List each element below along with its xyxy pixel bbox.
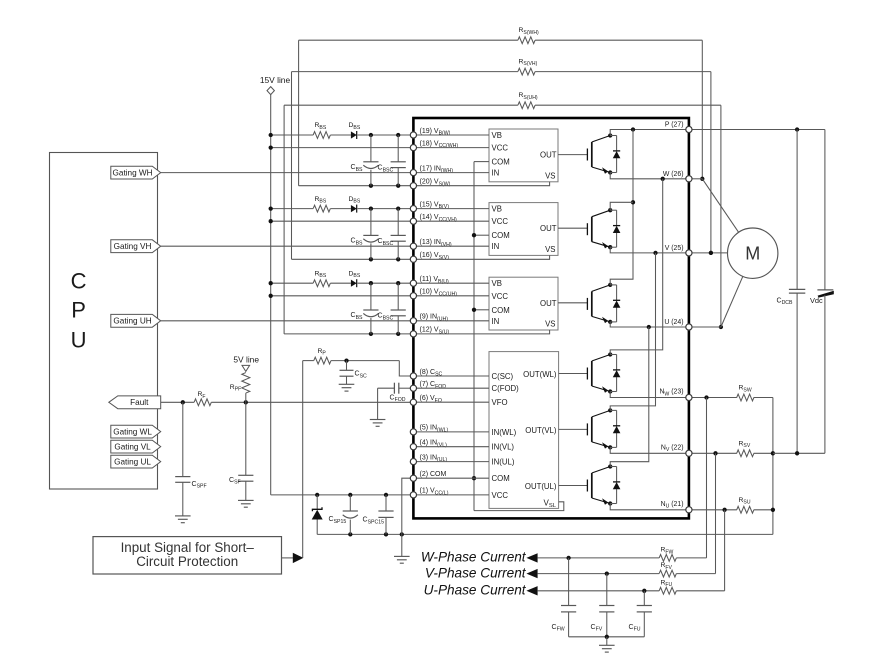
wire OUT of LVIC bbox=[559, 428, 588, 430]
ground at signal rail bbox=[394, 534, 410, 563]
svg-text:P (27): P (27) bbox=[665, 122, 684, 129]
wire Q5 collector riser to V bbox=[610, 253, 655, 411]
svg-text:OUT(UL): OUT(UL) bbox=[525, 482, 557, 491]
wire IN(UH) gating line bbox=[161, 320, 414, 322]
svg-text:IN(UL): IN(UL) bbox=[492, 458, 515, 467]
pin (8) CSC bbox=[420, 369, 443, 378]
free-wheel diode of Q6 (UL) bbox=[610, 467, 620, 504]
svg-text:M: M bbox=[745, 244, 760, 264]
capacitor C_SP15 bbox=[329, 495, 358, 535]
free-wheel diode of Q5 (VL) bbox=[610, 410, 620, 447]
svg-text:VCC: VCC bbox=[492, 144, 509, 153]
capacitor C_BSC (W phase) bbox=[378, 135, 406, 186]
wire Q4 emitter to N_W pin bbox=[610, 392, 689, 398]
svg-text:VS: VS bbox=[545, 171, 555, 180]
wire Q6 emitter to N_U pin bbox=[610, 504, 689, 510]
svg-text:U: U bbox=[71, 327, 87, 352]
wire VS(U) line bbox=[284, 332, 413, 336]
svg-text:VCC: VCC bbox=[492, 292, 509, 301]
pin (3) IN(UL) bbox=[420, 454, 448, 463]
resistor R_PF bbox=[230, 373, 250, 403]
wire SC input with arrow bbox=[282, 361, 304, 563]
wire signal ground rail bbox=[317, 532, 773, 536]
svg-text:V-Phase Current: V-Phase Current bbox=[425, 565, 527, 580]
wire VB(V) bootstrap line bbox=[269, 206, 414, 210]
pin (4) IN(VL) bbox=[420, 440, 448, 449]
pin (20) VS(W) bbox=[420, 179, 451, 188]
svg-text:OUT(VL): OUT(VL) bbox=[525, 426, 557, 435]
capacitor C_FW bbox=[552, 558, 577, 637]
svg-text:Vdc: Vdc bbox=[810, 296, 823, 305]
wire OUT of LVIC bbox=[559, 373, 588, 375]
wire LVIC input bbox=[413, 431, 489, 433]
pin (16) VS(V) bbox=[420, 252, 450, 261]
diode D_BS (V phase) bbox=[349, 196, 361, 213]
diode D_BS (U phase) bbox=[349, 270, 361, 287]
svg-text:C: C bbox=[71, 269, 87, 294]
wire P rail bbox=[689, 127, 825, 131]
svg-text:U-Phase Current: U-Phase Current bbox=[424, 583, 527, 598]
wire Q6 collector riser to U bbox=[610, 327, 649, 467]
pin P (27) bbox=[665, 122, 684, 129]
wire Fault line bbox=[161, 400, 414, 404]
svg-text:VFO: VFO bbox=[492, 398, 508, 407]
pin NW (23) bbox=[659, 389, 683, 398]
wire W phase (Q1 emitter to W pin) bbox=[610, 173, 689, 181]
free-wheel diode of Q1 (WH) bbox=[610, 136, 620, 173]
wire VB(U) bootstrap line bbox=[269, 281, 414, 285]
pin (14) VCC(VH) bbox=[420, 214, 457, 223]
resistor R_FV bbox=[659, 562, 676, 577]
svg-text:OUT: OUT bbox=[540, 299, 557, 308]
pin (15) VB(V) bbox=[420, 201, 450, 210]
svg-text:U (24): U (24) bbox=[664, 319, 683, 326]
svg-text:Input Signal for Short–: Input Signal for Short– bbox=[121, 540, 255, 555]
wire filter ground rail bbox=[569, 635, 645, 639]
capacitor C_BSC (U phase) bbox=[378, 283, 406, 334]
wire VS(V) to phase-V top link bbox=[292, 72, 714, 260]
wire P bus drop to Q2/Q3 collectors bbox=[610, 130, 635, 285]
wire LVIC input bbox=[413, 446, 489, 448]
transistor Q3 (UH) bbox=[587, 283, 612, 324]
resistor R_S(WH) bbox=[518, 27, 539, 44]
wire shunt tap U bbox=[724, 510, 726, 591]
tag Fault bbox=[109, 396, 161, 409]
wire VS hook of HVIC UH bbox=[413, 330, 549, 334]
IPM module outline bbox=[413, 118, 689, 518]
svg-text:V (25): V (25) bbox=[665, 245, 684, 252]
svg-text:IN(VL): IN(VL) bbox=[492, 443, 515, 452]
svg-text:5V line: 5V line bbox=[233, 355, 259, 365]
free-wheel diode of Q3 (UH) bbox=[610, 285, 620, 322]
battery Vdc bbox=[810, 130, 834, 454]
pin NU (21) bbox=[661, 501, 684, 510]
wire COM of HVIC VH bbox=[474, 234, 489, 236]
wire OUT of HVIC UH bbox=[558, 302, 587, 304]
svg-text:W (26): W (26) bbox=[663, 171, 684, 178]
svg-text:Fault: Fault bbox=[130, 398, 149, 407]
resistor R_S(UH) bbox=[518, 92, 538, 109]
pin (17) IN(WH) bbox=[420, 165, 454, 174]
wire Q4 collector riser to W bbox=[610, 179, 663, 355]
capacitor C_BSC (V phase) bbox=[378, 209, 406, 260]
tag Gating VH bbox=[111, 240, 161, 253]
svg-text:VS: VS bbox=[545, 320, 555, 329]
wire VS(W) to phase-W top link bbox=[299, 40, 705, 186]
resistor R_FW bbox=[659, 547, 676, 562]
pin (5) IN(WL) bbox=[420, 425, 449, 434]
tag Gating WH bbox=[111, 166, 161, 179]
wire VB/VCC/IN pin stubs into HVIC WH bbox=[413, 135, 489, 173]
pin (9) IN(UH) bbox=[420, 314, 449, 323]
wire LVIC input bbox=[413, 477, 489, 479]
op-amp U1 high-side gate driver HVIC (WH) bbox=[489, 129, 558, 182]
wire V phase (Q2 emitter to V pin) bbox=[610, 247, 689, 255]
pin (11) VB(U) bbox=[420, 276, 449, 285]
wire W-phase current line bbox=[526, 553, 706, 562]
wire P bus from Q1 collector bbox=[610, 127, 689, 135]
wire R_P line to C(SC) pin bbox=[303, 358, 414, 376]
wire COM of HVIC WH bbox=[474, 161, 489, 163]
svg-text:Gating WL: Gating WL bbox=[113, 428, 152, 437]
svg-text:Gating VH: Gating VH bbox=[114, 242, 152, 251]
op-amp U3 high-side gate driver HVIC (UH) bbox=[489, 277, 558, 330]
svg-text:COM: COM bbox=[492, 231, 510, 240]
wire Q5 emitter to N_V pin bbox=[610, 447, 689, 453]
wire VB/VCC/IN pin stubs into HVIC UH bbox=[413, 283, 489, 321]
wire VS(U) to phase-U top link bbox=[284, 105, 723, 334]
wire 15V vertical rail bbox=[270, 95, 272, 495]
pin NV (22) bbox=[661, 444, 684, 453]
wire VB/VCC/IN pin stubs into HVIC VH bbox=[413, 209, 489, 247]
capacitor C_SPC15 bbox=[363, 495, 394, 535]
wire VCC(VH) line bbox=[269, 219, 414, 223]
svg-text:VS: VS bbox=[545, 245, 555, 254]
resistor R_S(VH) bbox=[518, 58, 538, 75]
tag Gating UH bbox=[111, 314, 161, 327]
node 5V line bbox=[233, 355, 259, 372]
capacitor C_BS (U phase) bbox=[351, 283, 379, 334]
pin (1) VCC(L) bbox=[420, 488, 449, 497]
resistor R_F bbox=[194, 391, 211, 406]
tag Gating VL bbox=[111, 440, 161, 453]
svg-text:COM: COM bbox=[492, 474, 510, 483]
wire Q2 collector riser bbox=[610, 202, 633, 210]
svg-text:C(FOD): C(FOD) bbox=[492, 384, 520, 393]
resistor R_BS (V phase) bbox=[313, 196, 330, 212]
pin W (26) bbox=[663, 171, 684, 178]
wire LVIC input bbox=[413, 461, 489, 463]
wire OUT of HVIC WH bbox=[558, 154, 587, 156]
resistor R_SV bbox=[689, 440, 773, 456]
transistor Q6 (UL) bbox=[587, 464, 612, 505]
tag Gating UL bbox=[111, 455, 161, 468]
wire U phase to motor bbox=[689, 276, 743, 327]
pin (19) VB(W) bbox=[420, 128, 451, 137]
svg-text:(2) COM: (2) COM bbox=[420, 471, 447, 478]
svg-text:COM: COM bbox=[492, 158, 510, 167]
wire V_SL hook bbox=[474, 502, 564, 511]
transistor Q4 (WL) bbox=[587, 352, 612, 393]
wire V-phase current line bbox=[526, 569, 715, 578]
wire U-phase current line bbox=[526, 586, 724, 595]
wire LVIC input bbox=[413, 494, 489, 496]
pin (2) COM bbox=[420, 471, 447, 478]
capacitor C_SPF bbox=[175, 402, 207, 522]
wire N_V to DC-link return bbox=[773, 451, 825, 455]
capacitor C_FV bbox=[591, 574, 615, 637]
capacitor C_BS (V phase) bbox=[351, 209, 379, 260]
svg-text:15V line: 15V line bbox=[260, 75, 291, 85]
wire shunt tap W bbox=[706, 398, 708, 558]
transistor Q2 (VH) bbox=[587, 208, 612, 249]
wire LVIC input bbox=[413, 375, 489, 377]
pin (7) CFOD bbox=[420, 381, 447, 390]
svg-text:COM: COM bbox=[492, 306, 510, 315]
diode D_BS (W phase) bbox=[349, 122, 361, 139]
ground at filter rail bbox=[599, 637, 615, 652]
svg-text:VB: VB bbox=[492, 279, 502, 288]
wire OUT of LVIC bbox=[559, 485, 588, 487]
wire COM bus bbox=[472, 162, 476, 511]
wire VCC(L) 15V feed bbox=[271, 493, 414, 497]
wire LVIC input bbox=[413, 401, 489, 403]
wire shunt common bus bbox=[771, 398, 775, 535]
free-wheel diode of Q4 (WL) bbox=[610, 355, 620, 392]
transistor Q1 (WH) bbox=[587, 133, 612, 174]
resistor R_BS (W phase) bbox=[313, 122, 330, 138]
svg-text:Gating UL: Gating UL bbox=[114, 458, 151, 467]
tag Gating WL bbox=[111, 425, 161, 438]
op-amp U4 low-side gate driver LVIC bbox=[489, 352, 559, 510]
CPU block bbox=[50, 153, 158, 490]
svg-text:IN: IN bbox=[492, 317, 500, 326]
resistor R_BS (U phase) bbox=[313, 270, 330, 286]
capacitor C_FU bbox=[629, 591, 652, 637]
wire VS hook of HVIC WH bbox=[413, 182, 549, 186]
op-amp U2 high-side gate driver HVIC (VH) bbox=[489, 203, 558, 256]
pin (18) VCC(WH) bbox=[420, 140, 459, 149]
resistor R_SW bbox=[689, 385, 773, 401]
wire VB(W) bootstrap line bbox=[269, 133, 414, 137]
wire OUT of HVIC VH bbox=[558, 227, 587, 229]
module pin circles bbox=[410, 126, 692, 512]
svg-text:VCC: VCC bbox=[492, 217, 509, 226]
svg-text:Gating UH: Gating UH bbox=[113, 317, 151, 326]
wire COM pin to ground rail bbox=[402, 478, 414, 534]
motor M bbox=[728, 228, 778, 278]
svg-text:IN: IN bbox=[492, 242, 500, 251]
resistor R_SU bbox=[689, 497, 773, 513]
wire VCC(UH) line bbox=[269, 294, 414, 298]
capacitor C_SC bbox=[339, 361, 367, 392]
svg-text:OUT: OUT bbox=[540, 224, 557, 233]
capacitor C_FOD bbox=[370, 383, 414, 427]
svg-text:VB: VB bbox=[492, 131, 502, 140]
free-wheel diode of Q2 (VH) bbox=[610, 210, 620, 247]
wire LVIC input bbox=[413, 387, 489, 389]
short-circuit protection input box bbox=[93, 537, 282, 574]
node 15V line bbox=[260, 75, 291, 94]
svg-text:VB: VB bbox=[492, 205, 502, 214]
svg-text:Gating WH: Gating WH bbox=[113, 169, 153, 178]
wire COM of HVIC UH bbox=[474, 309, 489, 311]
wire VS hook of HVIC VH bbox=[413, 255, 549, 259]
svg-text:VCC: VCC bbox=[492, 491, 509, 500]
wire VS(V) line bbox=[292, 257, 414, 261]
capacitor C_SF bbox=[229, 402, 254, 507]
svg-text:Gating VL: Gating VL bbox=[114, 443, 151, 452]
svg-text:W-Phase Current: W-Phase Current bbox=[421, 550, 527, 565]
svg-text:OUT(WL): OUT(WL) bbox=[523, 370, 557, 379]
zener diode D_Z bbox=[312, 495, 323, 535]
wire W phase to motor bbox=[689, 179, 739, 233]
pin (12) VS(U) bbox=[420, 327, 450, 336]
svg-text:Circuit Protection: Circuit Protection bbox=[136, 554, 238, 569]
resistor R_P bbox=[314, 348, 331, 364]
pin (10) VCC(UH) bbox=[420, 289, 458, 298]
pin (13) IN(VH) bbox=[420, 239, 452, 248]
capacitor C_DCB bbox=[777, 130, 806, 454]
svg-text:OUT: OUT bbox=[540, 151, 557, 160]
resistor R_FU bbox=[659, 579, 676, 594]
svg-text:C(SC): C(SC) bbox=[492, 372, 514, 381]
transistor Q5 (VL) bbox=[587, 408, 612, 449]
wire IN(WH) gating line bbox=[161, 172, 414, 174]
wire shunt tap V bbox=[715, 453, 717, 573]
svg-text:IN(WL): IN(WL) bbox=[492, 428, 517, 437]
pin V (25) bbox=[665, 245, 684, 252]
wire VCC(WH) line bbox=[269, 145, 414, 149]
wire U phase (Q3 emitter to U pin) bbox=[610, 322, 689, 329]
svg-text:P: P bbox=[71, 298, 86, 323]
pin (6) VFO bbox=[420, 395, 442, 404]
wire VS(W) line bbox=[299, 184, 414, 188]
capacitor C_BS (W phase) bbox=[351, 135, 379, 186]
wire IN(VH) gating line bbox=[161, 245, 414, 247]
svg-text:IN: IN bbox=[492, 169, 500, 178]
pin U (24) bbox=[664, 319, 683, 326]
wire V phase to motor bbox=[689, 251, 728, 255]
